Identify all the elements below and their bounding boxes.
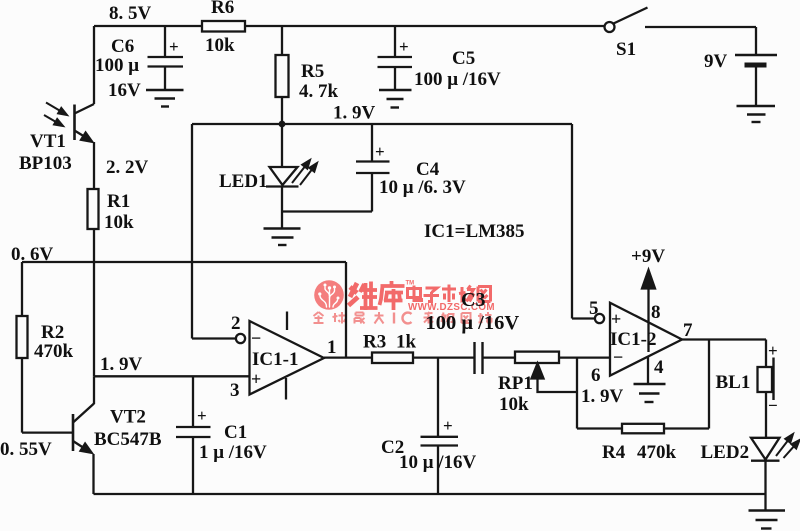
svg-text:470k: 470k [637,442,677,463]
svg-text:4: 4 [654,357,664,378]
svg-text:8: 8 [651,302,661,323]
svg-text:+: + [251,369,261,389]
svg-text:2: 2 [231,313,241,334]
svg-text:IC1=LM385: IC1=LM385 [424,221,525,242]
svg-text:−: − [613,347,623,367]
svg-text:VT1: VT1 [30,131,66,152]
svg-text:10 μ /6. 3V: 10 μ /6. 3V [379,177,466,198]
svg-text:LED1: LED1 [219,171,268,192]
svg-text:0. 55V: 0. 55V [0,439,52,460]
svg-text:R6: R6 [211,0,234,18]
svg-text:1k: 1k [396,332,417,353]
svg-text:100 μ /16V: 100 μ /16V [414,69,501,90]
svg-text:R2: R2 [41,322,64,343]
svg-text:BC547B: BC547B [94,429,162,450]
svg-text:100 μ /16V: 100 μ /16V [426,312,520,334]
svg-text:+: + [197,406,207,425]
svg-text:8. 5V: 8. 5V [109,3,152,24]
svg-text:+: + [443,416,453,435]
svg-text:+: + [399,37,409,56]
svg-text:10k: 10k [104,212,134,233]
svg-text:IC1-2: IC1-2 [610,329,656,350]
svg-text:C5: C5 [452,48,475,69]
svg-text:+: + [169,37,179,56]
svg-text:C6: C6 [111,36,134,57]
svg-text:RP1: RP1 [498,373,533,394]
svg-text:3: 3 [230,380,240,401]
svg-text:S1: S1 [616,39,636,60]
svg-text:0. 6V: 0. 6V [11,244,54,265]
svg-text:R5: R5 [301,61,324,82]
svg-text:6: 6 [591,365,601,386]
svg-text:+: + [375,142,385,161]
svg-text:10k: 10k [499,394,529,415]
svg-text:IC1-1: IC1-1 [252,349,298,370]
svg-text:7: 7 [683,320,693,341]
svg-text:C3: C3 [461,289,485,311]
svg-text:10 μ /16V: 10 μ /16V [399,452,477,473]
svg-text:C1: C1 [224,422,247,443]
svg-text:−: − [251,328,261,348]
svg-text:R3: R3 [363,332,386,353]
svg-text:VT2: VT2 [110,407,146,428]
svg-text:−: − [768,396,778,415]
svg-text:+: + [768,341,778,360]
svg-text:100 μ: 100 μ [95,55,139,76]
svg-text:+9V: +9V [631,246,665,267]
svg-text:+: + [611,309,621,329]
svg-text:9V: 9V [704,51,728,72]
svg-text:4. 7k: 4. 7k [299,81,339,102]
svg-text:BP103: BP103 [19,153,72,174]
svg-text:1. 9V: 1. 9V [333,103,376,124]
svg-text:1. 9V: 1. 9V [100,354,143,375]
svg-text:5: 5 [589,298,599,319]
svg-text:16V: 16V [108,80,141,101]
svg-text:R1: R1 [107,191,130,212]
svg-text:1: 1 [327,337,337,358]
svg-text:R4: R4 [602,442,626,463]
svg-text:10k: 10k [205,35,235,56]
svg-text:470k: 470k [34,341,74,362]
svg-text:1 μ /16V: 1 μ /16V [199,442,267,463]
svg-text:LED2: LED2 [701,442,750,463]
svg-text:BL1: BL1 [716,372,751,393]
svg-text:2. 2V: 2. 2V [106,157,149,178]
svg-text:1. 9V: 1. 9V [581,386,624,407]
